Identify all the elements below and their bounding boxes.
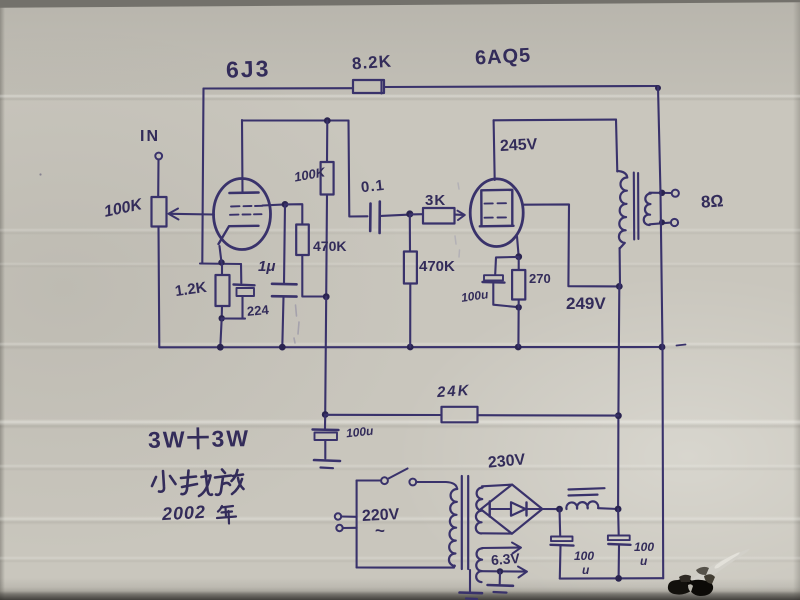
label 470K screen <box>313 238 346 254</box>
char nian <box>218 506 222 512</box>
choke L1 core <box>569 488 605 495</box>
ground decoupling <box>314 460 340 461</box>
wire feedback vertical <box>202 89 203 264</box>
wire choke out <box>599 507 619 510</box>
node bus/right corner <box>659 344 666 351</box>
char fang <box>222 470 225 474</box>
node 470K bottom <box>323 293 330 300</box>
wire secondary top lead <box>650 192 672 194</box>
tube U2 6AQ5 envelope <box>470 179 523 247</box>
terminal AC neutral <box>336 525 342 531</box>
resistor R 1.2K <box>221 264 223 275</box>
top dark wedge <box>0 0 800 8</box>
wire HV bottom to bridge <box>482 532 512 534</box>
wire cathode horizontal <box>200 262 241 265</box>
capacitor C 100u decoupling <box>324 415 326 429</box>
transformer T2 core <box>462 476 468 569</box>
wire 6.3V bottom lead arrow <box>482 570 525 572</box>
transformer T1 primary coil <box>617 171 627 249</box>
node bus/cathode <box>217 344 224 351</box>
tiny speck left <box>39 173 41 175</box>
resistor R 470K grid leak <box>409 214 411 251</box>
wire bridge out <box>542 508 559 510</box>
terminal out bottom <box>671 219 678 226</box>
node 1.2K bottom <box>219 315 225 321</box>
wire to switch <box>357 479 381 481</box>
switch S1 <box>381 477 388 484</box>
transformer T1 core <box>634 173 639 240</box>
transformer T1 secondary coil <box>644 193 651 224</box>
node top-right corner <box>655 85 661 91</box>
node 24K left tee <box>322 411 329 418</box>
capacitor C 100u filter 2 <box>617 509 620 535</box>
label 100K plate <box>293 164 326 184</box>
resistor R 3K <box>410 213 423 215</box>
resistor R 470K screen feed <box>285 204 302 224</box>
tube U2 grid dashes <box>485 202 507 204</box>
label 249V <box>566 294 606 314</box>
wire top rail right of 8.2K <box>384 86 658 87</box>
wire primary loop left <box>356 481 358 568</box>
wire cathode net to bus <box>220 318 221 347</box>
label 100u cathode <box>460 287 489 305</box>
label 100u filter1 <box>574 549 594 577</box>
wire screen lead <box>523 204 619 286</box>
wire B+ supply vertical <box>618 286 619 509</box>
wire IN lead <box>157 160 159 198</box>
node filter in <box>556 506 563 513</box>
terminal AC live <box>335 513 341 519</box>
label 8.2K <box>351 52 392 75</box>
choke L1 coil <box>566 501 598 509</box>
node choke/B+ <box>615 506 622 513</box>
wire cathode lead down <box>220 246 222 263</box>
label 100u decoupling <box>345 424 374 441</box>
char xiao <box>159 471 164 492</box>
terminal out top <box>672 190 679 197</box>
label ~ under 220V <box>375 521 385 541</box>
stray mark near bus end <box>677 345 686 346</box>
label 3W+3W <box>148 419 251 455</box>
wire pot bottom to ground bus <box>157 227 160 348</box>
node screen/B+ <box>616 283 623 290</box>
transformer T2 6.3V coil <box>476 548 482 582</box>
capacitor C 224 <box>240 264 242 283</box>
wire plate rail to coupling <box>242 119 349 121</box>
node cathode junction <box>218 259 224 265</box>
transformer T2 primary coil <box>449 489 457 566</box>
wire grid with wiper arrow <box>171 213 214 216</box>
wire plate lead up <box>241 120 244 193</box>
label 100K pot <box>103 196 144 222</box>
resistor R 8.2K <box>353 80 384 93</box>
wire secondary bottom lead <box>650 223 671 225</box>
wire screen junction lead <box>263 204 286 205</box>
node secondary bottom/right vertical <box>659 219 665 225</box>
label 470K grid <box>419 258 455 275</box>
label 100u filter2 <box>634 540 654 568</box>
label 224 <box>246 302 269 319</box>
tube U1 grid dashes row1 <box>231 205 263 208</box>
wire AC leads <box>341 517 356 529</box>
resistor R 100K plate load <box>326 121 328 162</box>
label 220V <box>362 506 400 526</box>
node 270 bottom <box>516 304 522 310</box>
label 245V <box>500 136 538 156</box>
capacitor C 1u <box>284 204 285 283</box>
label 270 <box>529 271 551 286</box>
tube U1 grid dashes row2 <box>230 213 262 216</box>
ground core <box>460 591 483 594</box>
char gong <box>181 477 196 479</box>
bridge inner diode <box>489 502 491 517</box>
label 3K <box>425 192 446 209</box>
wire bottom ground rail <box>560 577 663 579</box>
label 24K <box>436 382 471 401</box>
wire U2 plate lead up <box>494 120 495 180</box>
label IN <box>140 128 160 146</box>
wire primary bottom to B+ node <box>619 248 622 286</box>
tube U1 cathode <box>219 226 259 244</box>
wire switch to primary <box>416 482 457 489</box>
ground 6.3V <box>499 571 501 584</box>
node 24K right <box>615 412 622 419</box>
transformer T2 HV secondary coil <box>476 487 483 533</box>
tube U1 plate <box>230 191 259 194</box>
label 6AQ5 <box>474 45 531 71</box>
wire U2 cathode lead <box>517 237 519 257</box>
wire right vertical (fb/gnd) <box>658 87 663 579</box>
label 1.2K <box>174 279 208 300</box>
wire 6.3V top lead arrow <box>482 547 518 550</box>
label 2002nian <box>161 502 206 525</box>
wire down to 0.1 cap <box>349 121 368 217</box>
node bus/470K2 <box>407 344 414 351</box>
wire plate rail to OPT <box>494 119 616 122</box>
node after 0.1 <box>406 210 413 217</box>
node cathode U2 <box>515 253 522 260</box>
node secondary/right vertical <box>659 190 665 196</box>
capacitor C 100u filter 1 <box>558 509 561 536</box>
capacitor C 0.1 <box>369 204 372 232</box>
wire B+ left vertical down <box>325 297 326 415</box>
tube U2 cathode <box>480 225 514 228</box>
label 0.1 <box>360 177 386 196</box>
wire core ground lead <box>469 570 471 592</box>
node 6.3V ground tap <box>497 568 503 574</box>
node bus/270 <box>515 344 522 351</box>
capacitor C 100u cathode bypass <box>495 257 519 275</box>
node screen/470K/1u <box>282 201 289 208</box>
wire 3K arrow to grid <box>455 214 465 216</box>
resistor R 24K <box>325 414 441 416</box>
node rail/B+ vert <box>615 575 622 582</box>
potentiometer VR 100K <box>152 197 167 227</box>
label 1u <box>258 258 275 275</box>
wire HV top to bridge <box>482 485 511 487</box>
tube U1 6J3 envelope <box>214 179 271 250</box>
smudge marks below 470K <box>294 305 299 343</box>
ground bus <box>159 346 662 348</box>
wire primary bottom <box>357 566 455 568</box>
terminal IN <box>155 153 162 160</box>
wire 249V vertical B+ <box>616 120 617 172</box>
tube U2 plate cage <box>481 190 512 226</box>
node bus/1u <box>279 344 286 351</box>
wire top rail left of 8.2K <box>204 87 354 89</box>
resistor R 270 <box>518 257 520 270</box>
wire 0.1 to node <box>381 215 410 216</box>
node plate/100K junction <box>324 117 331 124</box>
bridge rectifier D1 diamond <box>481 485 543 534</box>
label 6J3 <box>226 55 271 84</box>
label 6.3V <box>490 550 520 568</box>
label 230V <box>487 451 526 472</box>
label 8 ohm <box>700 191 724 213</box>
